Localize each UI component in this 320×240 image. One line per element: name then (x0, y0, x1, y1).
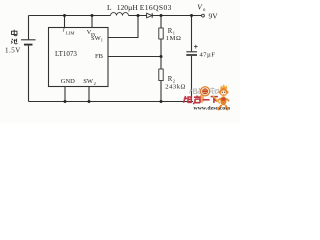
svg-text:9V: 9V (209, 12, 219, 21)
capacitor C1 bottom plate (186, 54, 197, 56)
wire: R2 bottom lead (160, 81, 162, 102)
battery B1 short plate (24, 44, 33, 46)
node: output / R1 junction (160, 14, 163, 17)
svg-text:GND: GND (61, 78, 75, 85)
watermark mascot monkey (213, 84, 230, 110)
wire: SW2 pin (88, 87, 90, 102)
resistor R1 body (159, 28, 163, 39)
capacitor C1 polarity plus (194, 45, 198, 49)
svg-text:1: 1 (101, 38, 103, 43)
svg-text:1.5V: 1.5V (5, 47, 21, 55)
node: GND pin junction (64, 100, 67, 103)
wire: top rail from battery + to inductor (29, 15, 111, 17)
inductor L1 coil (111, 13, 129, 16)
svg-text:1MΩ: 1MΩ (166, 35, 182, 42)
svg-text:E16QS03: E16QS03 (140, 3, 172, 12)
node: SW2 pin junction (88, 100, 91, 103)
battery B1 long plate (21, 39, 36, 41)
svg-text:SW: SW (83, 78, 94, 85)
wire: R1 bottom lead to FB node (160, 39, 162, 57)
wire: battery + drop (28, 16, 30, 40)
node: R2 ground junction (160, 100, 163, 103)
output terminal circle (202, 14, 205, 17)
wire: battery - drop to ground rail (28, 46, 30, 102)
node: ILIM junction (63, 14, 66, 17)
wire: capacitor C1 top lead (191, 16, 193, 52)
wire: diode cathode to output terminal (152, 15, 201, 17)
diode D1 E16QS03 (147, 13, 152, 18)
node: FB divider junction (160, 55, 163, 58)
op-amp U1 LT1073 box (49, 28, 109, 87)
capacitor C1 top plate (186, 51, 197, 53)
watermark small orange figure behind text (199, 95, 204, 103)
wire: FB pin (108, 56, 161, 58)
watermark red text 维库一下 (hand drawn) (184, 96, 218, 105)
svg-text:L: L (107, 3, 112, 12)
wire: SW1 pin to top rail (108, 16, 138, 38)
svg-text:47µF: 47µF (200, 52, 216, 59)
wire: R2 top lead (160, 57, 162, 70)
battery label 池 (hand drawn) (11, 39, 18, 44)
wire: GND pin (64, 87, 66, 102)
watermark gray text 市场 (right of logo) (211, 88, 219, 94)
node: VIN junction (91, 14, 94, 17)
svg-text:2: 2 (94, 81, 96, 86)
svg-text:243kΩ: 243kΩ (165, 83, 186, 90)
resistor R2 body (159, 69, 163, 81)
wire: R1 top lead (160, 16, 162, 29)
wire: VIN pin (91, 16, 93, 29)
battery label 电 (hand drawn) (11, 30, 18, 44)
svg-text:www.dzsc.com: www.dzsc.com (194, 106, 231, 112)
svg-text:120µH: 120µH (117, 3, 139, 12)
wire: capacitor C1 bottom lead (191, 56, 193, 102)
watermark logo inner emblem (202, 88, 208, 94)
node: capacitor tap junction (190, 14, 193, 17)
wire: ground rail (29, 101, 194, 103)
node: SW1 junction (137, 14, 140, 17)
watermark gray text 维库 (left of logo) (190, 88, 201, 94)
watermark logo circle (201, 87, 210, 96)
wire: coil to diode anode (129, 15, 147, 17)
wire: ILIM pin (64, 16, 66, 29)
svg-text:FB: FB (95, 53, 104, 60)
svg-text:LIM: LIM (66, 31, 74, 36)
svg-text:LT1073: LT1073 (55, 50, 77, 58)
